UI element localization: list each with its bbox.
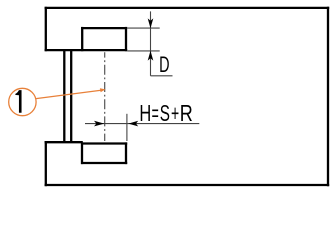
svg-text:+: + xyxy=(171,101,179,126)
svg-text:D: D xyxy=(159,53,169,78)
punch insert P xyxy=(81,27,127,51)
arrow H left (pointing right) xyxy=(94,121,104,127)
sheet strip left line xyxy=(63,51,65,143)
balloon 1 digit xyxy=(15,90,21,113)
die top surface xyxy=(45,141,83,143)
leader line from balloon xyxy=(36,90,103,99)
wire left edge upper xyxy=(45,7,47,51)
svg-text:S: S xyxy=(160,101,170,127)
svg-text:=: = xyxy=(152,100,159,126)
sheet strip right line xyxy=(70,51,72,143)
dimension D shelf xyxy=(151,75,173,77)
die cavity notch xyxy=(81,142,127,164)
dimension D extension line bottom xyxy=(127,50,160,52)
wire underside of top plate xyxy=(45,49,128,51)
dimension H extension line xyxy=(126,114,128,141)
wire bottom edge xyxy=(45,184,330,186)
wire right edge xyxy=(327,7,329,186)
leader arrowhead xyxy=(100,88,106,92)
wire top edge xyxy=(45,7,330,9)
centerline xyxy=(104,52,106,141)
svg-text:R: R xyxy=(180,101,193,127)
dimension H line xyxy=(85,123,199,125)
arrow D top (pointing down) xyxy=(148,18,154,28)
balloon 1 circle xyxy=(9,88,36,115)
svg-text:H: H xyxy=(139,101,151,126)
dimension D extension line top xyxy=(127,27,160,29)
arrow H right (pointing left) xyxy=(128,121,138,127)
wire left edge lower xyxy=(45,141,47,186)
label H=S+R xyxy=(139,100,192,127)
arrow D bottom (pointing up) xyxy=(148,51,154,61)
dimension D line xyxy=(150,11,152,75)
